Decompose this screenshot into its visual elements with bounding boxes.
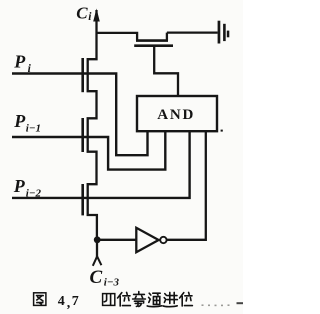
svg-text:4: 4 bbox=[58, 294, 65, 309]
svg-text:i−1: i−1 bbox=[26, 123, 41, 135]
svg-text:7: 7 bbox=[72, 294, 79, 309]
svg-text:P: P bbox=[13, 176, 26, 196]
svg-text:P: P bbox=[13, 111, 26, 131]
svg-text:C: C bbox=[76, 4, 88, 23]
svg-text:C: C bbox=[90, 267, 103, 288]
svg-text:,: , bbox=[67, 296, 71, 311]
svg-text:i: i bbox=[88, 11, 92, 23]
svg-text:AND: AND bbox=[157, 107, 195, 123]
svg-text:P: P bbox=[13, 52, 26, 72]
svg-text:i−2: i−2 bbox=[26, 188, 42, 200]
svg-text:i−3: i−3 bbox=[104, 277, 120, 289]
